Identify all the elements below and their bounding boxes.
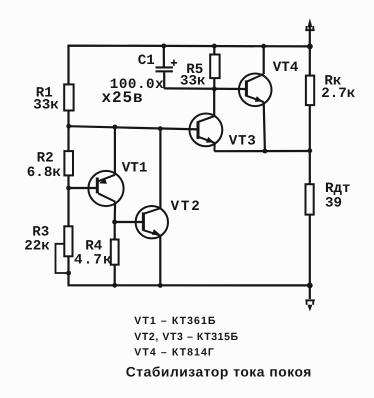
svg-text:33к: 33к	[180, 73, 206, 89]
svg-text:VT2: VT2	[171, 199, 202, 215]
svg-text:VT1 – КТ361Б: VT1 – КТ361Б	[134, 315, 216, 327]
svg-text:VT4 – КТ814Г: VT4 – КТ814Г	[134, 346, 215, 358]
svg-text:VT1: VT1	[122, 160, 148, 176]
svg-text:4.7к: 4.7к	[74, 253, 113, 269]
svg-text:Стабилизатор тока покоя: Стабилизатор тока покоя	[126, 365, 312, 380]
svg-text:39: 39	[325, 195, 342, 211]
svg-text:VT2, VT3 – КТ315Б: VT2, VT3 – КТ315Б	[134, 331, 238, 343]
svg-text:C1: C1	[138, 53, 155, 69]
svg-text:х25в: х25в	[102, 89, 144, 107]
svg-text:33к: 33к	[33, 97, 59, 113]
svg-text:22к: 22к	[24, 238, 50, 254]
svg-text:6.8к: 6.8к	[27, 165, 62, 181]
svg-text:VT4: VT4	[273, 60, 299, 76]
svg-text:2.7к: 2.7к	[321, 86, 356, 102]
svg-text:VT3: VT3	[229, 133, 257, 149]
